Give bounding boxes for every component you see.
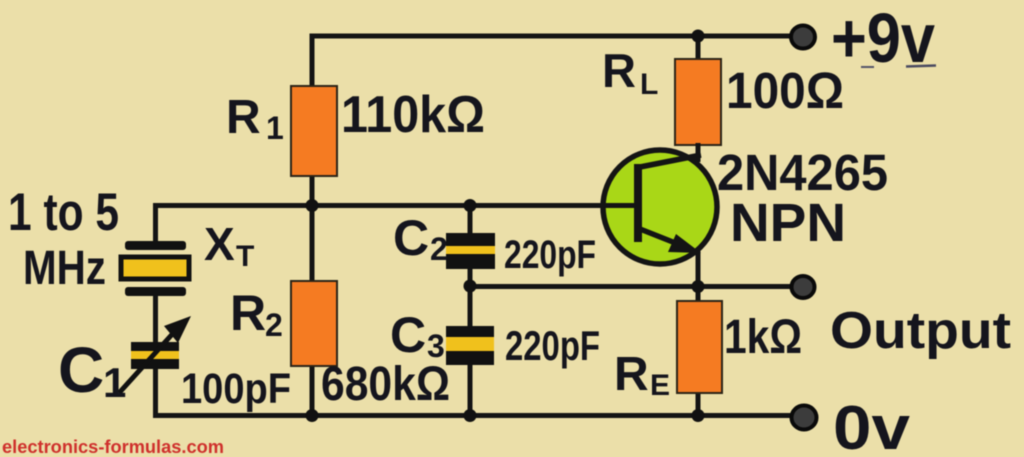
transistor Q1 2N4265 <box>598 143 717 264</box>
svg-text:MHz: MHz <box>23 242 106 295</box>
capacitor C2 <box>446 233 495 269</box>
svg-text:220pF: 220pF <box>505 322 600 369</box>
svg-text:R: R <box>614 348 649 401</box>
junction node RE bottom <box>692 409 705 422</box>
svg-text:NPN: NPN <box>730 193 846 253</box>
wire R1 top <box>310 34 315 89</box>
junction node C2-base <box>464 199 477 212</box>
svg-text:X: X <box>204 218 235 270</box>
capacitor C3 <box>446 326 494 365</box>
artifact dash under 9v <box>906 66 936 67</box>
svg-text:C: C <box>393 210 429 266</box>
wire R2 top <box>310 204 315 283</box>
wire emitter output rail <box>468 284 791 289</box>
svg-text:C: C <box>390 307 426 363</box>
wire collector to RL <box>696 34 701 61</box>
wire RL to transistor <box>696 143 701 162</box>
svg-text:L: L <box>640 68 658 101</box>
svg-text:T: T <box>236 240 254 273</box>
wire RE bottom <box>696 392 701 417</box>
svg-text:1: 1 <box>103 359 126 406</box>
crystal XT <box>121 241 189 296</box>
svg-text:R: R <box>226 91 261 144</box>
svg-text:3: 3 <box>427 328 445 364</box>
terminal 0v <box>792 406 817 430</box>
wire C2 to C3 <box>468 267 473 328</box>
terminal +9v <box>791 26 815 49</box>
svg-text:C: C <box>58 334 104 406</box>
svg-text:2: 2 <box>265 307 283 343</box>
svg-text:100pF: 100pF <box>181 365 291 413</box>
capacitor C1 (variable) <box>119 316 191 393</box>
svg-text:1kΩ: 1kΩ <box>724 311 802 364</box>
junction node collector rail <box>692 30 705 43</box>
wire emitter to RE <box>696 250 701 303</box>
svg-text:110kΩ: 110kΩ <box>341 86 485 144</box>
svg-text:R: R <box>230 285 266 341</box>
junction node emitter <box>692 280 705 293</box>
svg-text:680kΩ: 680kΩ <box>321 358 450 411</box>
terminal Output <box>792 276 815 298</box>
svg-text:electronics-formulas.com: electronics-formulas.com <box>2 437 224 457</box>
wire C3 bottom <box>468 363 473 417</box>
resistor RE <box>677 301 722 393</box>
svg-text:E: E <box>650 369 670 402</box>
svg-text:100Ω: 100Ω <box>726 62 844 119</box>
wire bottom rail 0v <box>153 413 793 418</box>
junction node R1-base <box>306 199 319 212</box>
svg-text:1: 1 <box>266 110 284 146</box>
junction node C2-C3 <box>464 280 477 293</box>
svg-text:2: 2 <box>430 231 448 267</box>
junction node R2 bottom <box>306 409 319 422</box>
wire base rail <box>154 203 640 208</box>
wire C2 top <box>468 204 473 235</box>
wire top rail +9v <box>310 34 792 39</box>
wire C1 to bottom rail <box>153 367 158 417</box>
resistor R1 <box>291 86 337 176</box>
svg-text:R: R <box>602 44 636 97</box>
svg-text:Output: Output <box>830 302 1011 360</box>
svg-text:220pF: 220pF <box>504 233 596 277</box>
junction node C3 bottom <box>464 409 477 422</box>
wire R1 bottom <box>310 174 315 207</box>
svg-text:1 to 5: 1 to 5 <box>8 183 119 242</box>
resistor RL <box>675 59 721 145</box>
resistor R2 <box>291 281 337 366</box>
wire left branch upper <box>153 203 158 243</box>
wire crystal to C1 <box>153 294 158 344</box>
wire R2 bottom <box>310 364 315 417</box>
svg-text:0v: 0v <box>833 394 911 457</box>
